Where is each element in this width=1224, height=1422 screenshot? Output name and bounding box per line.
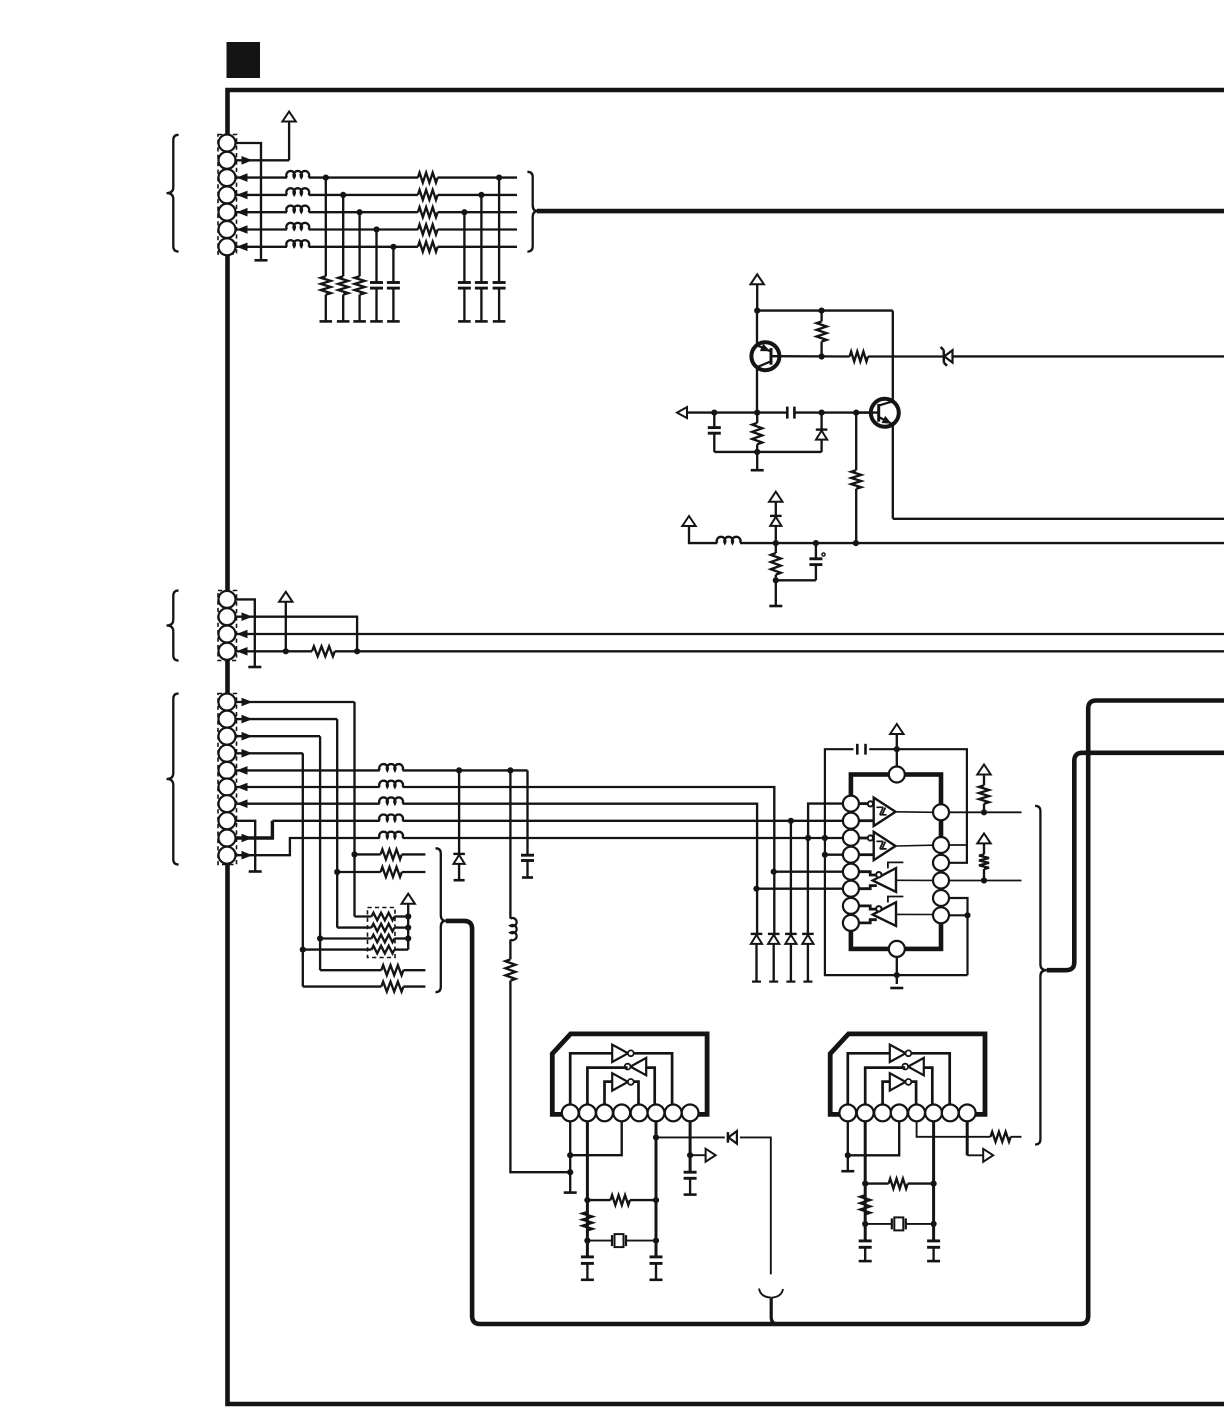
wire cap right 1 — [498, 178, 500, 282]
power arrow VCC4 — [769, 492, 782, 502]
inverter U3C — [890, 1073, 906, 1090]
inductor L7 feed chain — [509, 770, 511, 918]
junction — [964, 912, 970, 918]
inverter U2B — [630, 1058, 646, 1075]
wire row8 bus — [403, 820, 852, 822]
inductor L12 — [286, 188, 309, 195]
wire U3B in — [924, 1068, 933, 1105]
arrow row5 — [237, 766, 248, 775]
wire U2C in — [605, 1082, 613, 1105]
section marker square — [227, 42, 261, 78]
wire U2 pin6 down — [655, 1121, 658, 1256]
wire buffer A out — [896, 811, 934, 814]
buffer B — [874, 832, 896, 860]
tie rail — [776, 579, 816, 581]
pin pad top — [889, 767, 905, 783]
arrow row3 — [237, 173, 248, 182]
wire row6 bus — [403, 787, 775, 936]
transistor Q1 — [751, 342, 779, 370]
ground — [756, 452, 758, 470]
resistor R15 — [303, 985, 382, 987]
wire VCC3 down — [689, 526, 717, 543]
wire U3B out — [865, 1068, 905, 1105]
junction row5 — [357, 209, 363, 215]
brace resistor group — [436, 848, 446, 992]
inductor L14 — [286, 223, 309, 230]
ground — [564, 1191, 577, 1194]
junction row4 right — [478, 192, 484, 198]
ground — [841, 1170, 854, 1173]
flag out — [690, 1154, 706, 1156]
connector CN2 brace — [167, 591, 179, 661]
wire shunt C2 — [392, 247, 394, 282]
wire Q2 base — [856, 411, 879, 413]
wire pad2 to shield — [949, 844, 967, 846]
capacitor C13 — [859, 1239, 872, 1242]
junction — [567, 1169, 573, 1175]
junction — [653, 1134, 659, 1140]
wire base rail — [771, 355, 850, 358]
wire shunt R2 — [342, 195, 344, 276]
wire out5 corner — [949, 898, 968, 915]
end bar — [387, 320, 400, 323]
arrow row2 — [242, 715, 253, 724]
wire U1 pin6 — [757, 888, 843, 890]
resistor RP3 — [317, 935, 323, 941]
power arrow VCC2 — [751, 274, 764, 284]
wire out1 — [949, 811, 1022, 813]
connector CN2 pins — [219, 591, 236, 608]
inductor L6 — [717, 537, 741, 543]
resistor shunt R2 — [338, 276, 348, 294]
junction — [805, 835, 811, 841]
wire buffer B in — [859, 837, 868, 840]
IC U2 body — [552, 1034, 707, 1115]
wire row7 to brace — [438, 246, 517, 248]
junction row4 — [340, 192, 346, 198]
wire U1 pin5 — [774, 871, 843, 873]
wire row9 bus — [403, 837, 852, 839]
connector CN3 brace — [167, 694, 179, 865]
thick return line — [1047, 753, 1224, 970]
wire chain to osc1 — [510, 981, 570, 1172]
inductor L22 — [379, 781, 403, 787]
wire U1 pin4 stub — [825, 854, 843, 856]
junction — [931, 1221, 937, 1227]
wire pin1 to stub ground — [236, 143, 262, 260]
capacitor C16 — [458, 281, 471, 284]
wire pin4 to edge — [335, 650, 1224, 652]
breaker symbol — [759, 1289, 771, 1298]
wire U2 pin8 — [689, 1121, 692, 1172]
connector CN3 dashed outline — [218, 694, 237, 865]
wire row6 mid — [309, 228, 418, 230]
junction row3 right — [496, 175, 502, 181]
left pin pads U1 — [843, 796, 859, 812]
wire shunt C1 — [375, 230, 377, 283]
wire cap right 2 — [480, 195, 482, 282]
junction — [405, 935, 411, 941]
end bar — [493, 320, 506, 323]
buffer D — [873, 902, 896, 926]
wire U3 pin1 ground — [847, 1121, 849, 1171]
capacitor C15 — [475, 281, 488, 284]
wire out mid — [893, 518, 1224, 520]
junction — [653, 1238, 659, 1244]
diode D8 tail — [807, 838, 809, 936]
wire U2 pin4 down — [570, 1121, 622, 1155]
stub end bar — [248, 666, 261, 669]
junction — [981, 809, 987, 815]
IC U3 body — [830, 1034, 985, 1115]
resistor shunt R3 — [355, 276, 365, 294]
resistor RP4 — [300, 947, 306, 953]
resistor R6 — [850, 352, 868, 362]
junction — [771, 869, 777, 875]
resistor RP1 — [355, 915, 372, 917]
wire row3 to brace — [438, 176, 517, 178]
inductor L13 — [286, 206, 309, 213]
IC U1 body — [851, 775, 941, 949]
capacitor C14 — [493, 281, 506, 284]
wire row5 mid — [309, 211, 418, 213]
wire base rail right — [868, 355, 944, 357]
junction row3 — [323, 175, 329, 181]
wire buffer C out — [896, 879, 933, 881]
brace CN1 bus — [527, 172, 537, 252]
resistor series row7 — [418, 242, 438, 252]
arrow pin2 — [242, 612, 253, 621]
wire buffer B out — [896, 844, 934, 847]
right pin pads U1 — [933, 804, 949, 820]
junction — [405, 925, 411, 931]
wire diode tails — [755, 944, 757, 982]
wire row3 down — [319, 736, 321, 970]
junction — [853, 540, 859, 546]
wire pin2 to power — [236, 159, 289, 161]
resistor R19 — [587, 1199, 610, 1201]
resistor R7 — [756, 413, 758, 423]
wire U2B in — [646, 1068, 655, 1105]
wire U3 pin8 — [966, 1121, 969, 1155]
transistor Q1 collector lead — [756, 311, 758, 346]
wire clock to antenna — [740, 1137, 771, 1274]
resistor series row4 — [418, 190, 438, 200]
bottom tie rail — [714, 451, 821, 453]
junction — [283, 648, 289, 654]
connector CN2 dashed outline — [218, 591, 237, 661]
resistor R20 — [860, 1195, 870, 1214]
junction R9 bottom — [773, 577, 779, 583]
resistor series row3 — [418, 173, 438, 183]
resistor R18 — [582, 1212, 592, 1230]
node rail top — [754, 308, 760, 314]
wire U3 pin5 clock — [917, 1121, 968, 1137]
arrow pin3 — [237, 630, 248, 639]
end bar — [370, 320, 383, 323]
capacitor C10 — [581, 1255, 594, 1258]
wire to edge — [953, 355, 1224, 357]
inductor L24 — [379, 814, 403, 820]
wire row5 to brace — [438, 211, 517, 213]
thick link to loop — [446, 701, 1224, 1325]
wire VCC5 down — [285, 602, 287, 652]
flag out — [967, 1154, 984, 1156]
arrow pin10 — [242, 851, 253, 860]
junction row6 — [373, 226, 379, 232]
wire R5 lead — [820, 311, 822, 322]
wire CN3 row7 — [236, 803, 380, 805]
capacitor C9 series — [856, 744, 859, 755]
buffer A — [874, 798, 896, 826]
resistor R16 — [983, 775, 985, 786]
junction base rail — [819, 353, 825, 359]
capacitor C11 — [650, 1255, 663, 1258]
wire cap row right — [794, 411, 871, 413]
resistor shunt R1 — [321, 276, 331, 294]
wire U2 pin1 ground — [569, 1121, 571, 1192]
capacitor C7 — [815, 543, 817, 558]
brace outputs — [1035, 806, 1047, 1145]
resistor R11 — [509, 940, 511, 960]
wire U2B out — [587, 1068, 627, 1105]
inductor L23 — [379, 797, 403, 803]
resistor R10 — [312, 646, 335, 656]
wire VCC7 — [896, 734, 898, 767]
buffer C — [873, 868, 896, 892]
resistor R12 — [351, 851, 357, 857]
diode D9 — [727, 1132, 730, 1143]
connector CN1 brace — [167, 135, 179, 252]
wire pin9 jog — [236, 821, 272, 838]
diode bodies — [751, 933, 763, 935]
capacitor shunt C1 — [370, 281, 383, 284]
wire lower rail — [740, 542, 1224, 544]
resistor R14 — [320, 969, 381, 971]
resistor R17 — [983, 843, 985, 854]
wire buffer D in — [859, 906, 876, 909]
ground — [775, 580, 777, 606]
wire Q2 collector riser — [892, 311, 894, 402]
junction — [507, 767, 513, 773]
power arrow VCC6 — [402, 894, 415, 904]
wire row4 mid — [309, 194, 418, 196]
arrow row7 — [237, 243, 248, 252]
wire pin3 to edge — [236, 633, 1224, 635]
resistor series row5 — [418, 207, 438, 217]
connector CN1 pins — [219, 135, 236, 152]
power arrow VCC1 — [282, 112, 295, 122]
thick bus line to edge — [537, 209, 1224, 214]
wire U2A out — [634, 1053, 673, 1104]
wire CN3 row5 — [236, 769, 380, 771]
wire pin1 stub — [236, 599, 255, 666]
wire clock out — [656, 1136, 725, 1138]
junction — [753, 886, 759, 892]
junction R5 top — [819, 308, 825, 314]
wire U3C out — [911, 1082, 916, 1105]
polarity mark — [822, 553, 825, 556]
wire out4 — [949, 880, 1022, 882]
wire pin10 jog — [236, 838, 380, 855]
end bar — [522, 876, 533, 879]
junction — [754, 410, 760, 416]
capacitor C6 shunt — [713, 413, 715, 428]
schematic border frame — [228, 90, 1224, 1404]
wire to R10 — [286, 650, 312, 652]
capacitor C5 — [786, 407, 789, 419]
arrow row4 — [237, 191, 248, 200]
wire row7 bus — [403, 804, 758, 937]
junction — [931, 1181, 937, 1187]
end bar — [475, 320, 488, 323]
wire CN3 row6 — [236, 786, 380, 788]
arrow out left — [677, 407, 687, 418]
resistor R13 — [334, 869, 340, 875]
wire buffer D top tap — [888, 897, 904, 903]
wire U1 pin1 feed — [808, 804, 843, 838]
wire CN3 row3 — [236, 735, 320, 737]
resistor R9 — [775, 543, 777, 553]
wire cap row — [687, 411, 787, 413]
arrow row4 — [242, 749, 253, 758]
wire row5 bus — [403, 769, 528, 771]
wire row2 down — [336, 719, 338, 928]
junction R7 bottom — [754, 449, 760, 455]
power arrow VCC7 — [890, 724, 903, 734]
power arrow VCC5 — [279, 592, 292, 602]
ground — [890, 987, 903, 990]
junction diode row — [788, 818, 794, 824]
wire cap right 3 — [463, 212, 465, 282]
junction — [853, 410, 859, 416]
inverter U2A — [612, 1045, 628, 1062]
wire VCC6 down — [407, 904, 409, 950]
IC U2 pin pads — [562, 1105, 579, 1122]
arrow row5 — [237, 208, 248, 217]
junction — [981, 877, 987, 883]
wire U3 pin6 down — [932, 1121, 935, 1240]
wire buffer C in — [859, 872, 876, 875]
pin pad bottom — [889, 941, 905, 957]
wire CN3 row2 — [236, 718, 337, 720]
wire U2A in — [570, 1053, 612, 1104]
wire shunt R3 — [358, 212, 360, 276]
junction — [894, 972, 900, 978]
wire U2 pin2 down — [586, 1121, 589, 1256]
arrow row3 — [242, 732, 253, 741]
inverter U2C — [612, 1073, 628, 1090]
junction — [584, 1238, 590, 1244]
junction — [862, 1181, 868, 1187]
wire CN1 row5 — [236, 211, 287, 213]
diode D4 — [458, 770, 460, 854]
wire CN1 row4 — [236, 194, 287, 196]
arrow row6 — [237, 783, 248, 792]
junction row5 right — [461, 209, 467, 215]
resistor R21 — [865, 1182, 888, 1184]
wire buffer D out — [896, 913, 933, 915]
wire row7 mid — [309, 246, 418, 248]
junction row7 — [390, 244, 396, 250]
capacitor shunt C2 — [387, 281, 400, 284]
resistor RP2 — [337, 926, 371, 928]
wire CN1 row6 — [236, 228, 287, 230]
end bar — [458, 320, 471, 323]
wire buffer C top tap — [888, 862, 904, 868]
wire pin4 — [236, 650, 286, 652]
diode D3 — [775, 502, 777, 516]
junction — [354, 648, 360, 654]
wire out6 shield — [949, 915, 968, 975]
junction — [711, 410, 717, 416]
wire row4 down — [302, 753, 304, 986]
stub end bar — [255, 259, 268, 262]
capacitor C8 — [526, 770, 528, 854]
connector CN3 pins — [219, 694, 236, 711]
junction — [584, 1197, 590, 1203]
wire top rail — [757, 309, 893, 311]
crystal X2 — [865, 1223, 892, 1225]
wire shunt R1 — [325, 178, 327, 277]
transistor Q2 — [871, 399, 899, 427]
inductor L25 — [379, 832, 403, 838]
wire U3 pin4 down — [848, 1121, 899, 1155]
crystal X1 — [587, 1240, 612, 1242]
wire row3 mid — [309, 176, 418, 178]
inverter U3B — [908, 1058, 924, 1075]
diode D2 — [820, 413, 822, 430]
wire CN1 row3 — [236, 176, 287, 178]
wire VCC2 down — [756, 284, 758, 310]
resistor R8 — [855, 413, 857, 471]
junction — [653, 1197, 659, 1203]
wire U3A in — [848, 1053, 890, 1104]
IC U1 shield loop — [825, 749, 968, 975]
power arrow VCC9 — [977, 833, 990, 843]
arrow pin9 — [242, 834, 253, 843]
inductor L21 — [379, 764, 403, 770]
resistor R22 — [967, 1136, 990, 1138]
wire ground stem — [896, 957, 898, 984]
junction — [822, 835, 828, 841]
ground — [684, 1193, 697, 1196]
dashed resistor pack outline — [368, 908, 396, 958]
wire U3A out — [911, 1053, 950, 1104]
inverter U3A — [890, 1045, 906, 1062]
inductor L15 — [286, 240, 309, 247]
end bar — [337, 320, 350, 323]
end bar — [454, 879, 465, 882]
arrow pin4 — [237, 647, 248, 656]
wire buffer A in — [859, 802, 868, 805]
junction — [822, 852, 828, 858]
wire row4 to brace — [438, 194, 517, 196]
junction — [813, 540, 819, 546]
arrow pin2 — [242, 156, 253, 165]
wire U3 pin2 down — [864, 1121, 867, 1240]
wire CN3 row1 — [236, 701, 355, 703]
wire U2C out — [634, 1082, 639, 1105]
capacitor C12 — [684, 1171, 697, 1174]
junction — [819, 410, 825, 416]
wire pin2 — [236, 617, 357, 652]
inductor L11 — [286, 171, 309, 178]
wire row6 to brace — [438, 228, 517, 230]
end bar — [353, 320, 366, 323]
arrow row6 — [237, 225, 248, 234]
IC U3 pin pads — [839, 1105, 856, 1122]
